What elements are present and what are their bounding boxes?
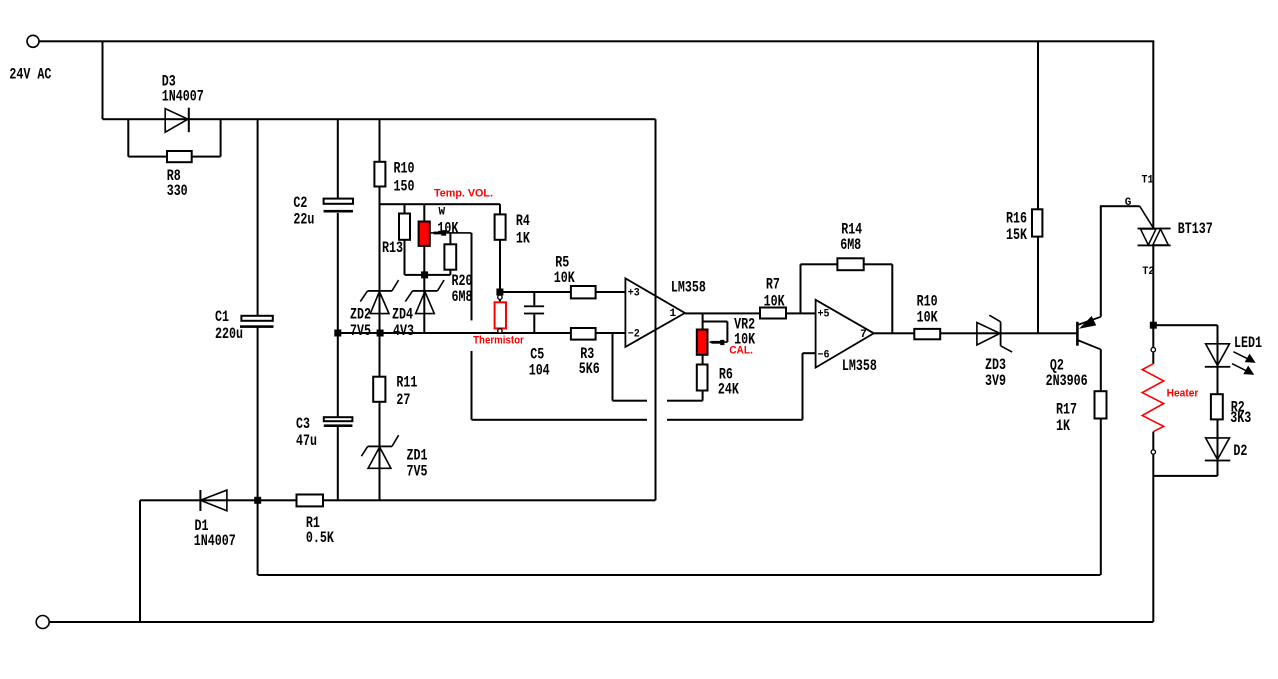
svg-text:6M8: 6M8: [840, 236, 861, 254]
svg-text:10K: 10K: [437, 220, 459, 238]
svg-text:220u: 220u: [215, 325, 243, 343]
svg-text:ZD4: ZD4: [392, 306, 413, 324]
svg-text:C3: C3: [296, 415, 310, 433]
svg-text:−2: −2: [628, 328, 640, 340]
svg-text:R16: R16: [1006, 210, 1027, 228]
svg-text:Temp. VOL.: Temp. VOL.: [434, 188, 493, 200]
svg-text:Heater: Heater: [1167, 387, 1199, 399]
svg-text:7: 7: [860, 329, 867, 341]
svg-text:1: 1: [670, 308, 677, 320]
svg-text:15K: 15K: [1006, 226, 1028, 244]
svg-text:LM358: LM358: [842, 357, 877, 375]
svg-text:R11: R11: [396, 374, 417, 392]
svg-text:R4: R4: [516, 212, 530, 230]
svg-text:24V AC: 24V AC: [9, 65, 51, 83]
svg-text:R13: R13: [382, 239, 403, 257]
svg-text:1K: 1K: [1056, 417, 1071, 435]
svg-text:24K: 24K: [718, 381, 740, 399]
svg-text:BT137: BT137: [1178, 220, 1213, 238]
svg-text:Thermistor: Thermistor: [473, 335, 524, 347]
svg-text:3K3: 3K3: [1230, 409, 1251, 427]
svg-text:27: 27: [396, 391, 410, 409]
svg-text:47u: 47u: [296, 432, 317, 450]
svg-text:10K: 10K: [554, 269, 576, 287]
svg-text:7V5: 7V5: [350, 322, 371, 340]
svg-text:R7: R7: [766, 276, 780, 294]
svg-text:D2: D2: [1233, 442, 1247, 460]
svg-text:LM358: LM358: [671, 279, 706, 297]
svg-text:5K6: 5K6: [579, 360, 600, 378]
svg-text:T2: T2: [1142, 266, 1154, 278]
svg-text:C2: C2: [293, 194, 307, 212]
svg-text:104: 104: [529, 362, 550, 380]
svg-text:−6: −6: [818, 350, 830, 362]
svg-text:+3: +3: [628, 288, 640, 300]
svg-text:4V3: 4V3: [393, 322, 414, 340]
svg-text:R10: R10: [394, 159, 415, 177]
svg-text:330: 330: [167, 182, 188, 200]
svg-text:10K: 10K: [917, 309, 939, 327]
svg-text:G: G: [1125, 197, 1132, 209]
svg-text:10K: 10K: [764, 292, 786, 310]
svg-text:R17: R17: [1056, 401, 1077, 419]
svg-text:3V9: 3V9: [985, 372, 1006, 390]
svg-text:W: W: [439, 207, 446, 219]
svg-text:1K: 1K: [516, 229, 531, 247]
svg-text:T1: T1: [1142, 175, 1154, 187]
svg-text:CAL.: CAL.: [729, 344, 753, 356]
svg-text:22u: 22u: [293, 211, 314, 229]
svg-text:7V5: 7V5: [407, 463, 428, 481]
svg-text:6M8: 6M8: [452, 288, 473, 306]
svg-text:0.5K: 0.5K: [306, 529, 335, 547]
svg-text:C1: C1: [215, 308, 229, 326]
svg-text:1N4007: 1N4007: [194, 532, 236, 550]
svg-text:LED1: LED1: [1234, 334, 1262, 352]
svg-text:+5: +5: [818, 308, 830, 320]
svg-text:2N3906: 2N3906: [1046, 372, 1088, 390]
svg-text:150: 150: [394, 178, 415, 196]
svg-text:1N4007: 1N4007: [162, 88, 204, 106]
svg-text:ZD2: ZD2: [350, 306, 371, 324]
